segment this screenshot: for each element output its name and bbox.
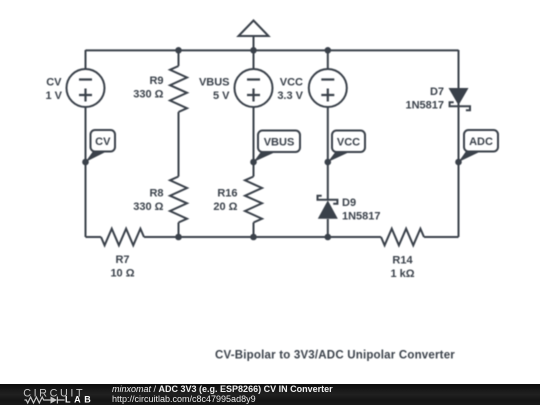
svg-text:20 Ω: 20 Ω xyxy=(213,201,237,213)
svg-text:R14: R14 xyxy=(392,255,413,267)
svg-text:D9: D9 xyxy=(342,197,356,209)
svg-text:VBUS: VBUS xyxy=(199,76,230,88)
svg-text:VCC: VCC xyxy=(280,76,303,88)
svg-text:1N5817: 1N5817 xyxy=(342,211,381,223)
svg-text:R16: R16 xyxy=(217,188,237,200)
svg-text:D7: D7 xyxy=(430,86,444,98)
svg-text:1 V: 1 V xyxy=(45,90,62,102)
svg-text:330 Ω: 330 Ω xyxy=(133,201,163,213)
svg-text:R8: R8 xyxy=(149,188,163,200)
svg-text:LAB: LAB xyxy=(65,395,94,405)
svg-text:VBUS: VBUS xyxy=(264,136,295,148)
svg-text:5 V: 5 V xyxy=(213,90,230,102)
svg-text:1 kΩ: 1 kΩ xyxy=(390,268,414,280)
svg-text:R7: R7 xyxy=(115,254,129,266)
svg-text:VCC: VCC xyxy=(337,136,360,148)
svg-text:ADC: ADC xyxy=(469,136,493,148)
svg-text:3.3 V: 3.3 V xyxy=(277,90,303,102)
svg-text:R9: R9 xyxy=(149,75,163,87)
svg-text:1N5817: 1N5817 xyxy=(405,100,444,112)
svg-text:CV-Bipolar to 3V3/ADC Unipolar: CV-Bipolar to 3V3/ADC Unipolar Converter xyxy=(215,350,455,362)
svg-text:CV: CV xyxy=(46,76,62,88)
svg-text:CV: CV xyxy=(95,136,111,148)
svg-text:330 Ω: 330 Ω xyxy=(133,89,163,101)
svg-text:10 Ω: 10 Ω xyxy=(110,268,134,280)
